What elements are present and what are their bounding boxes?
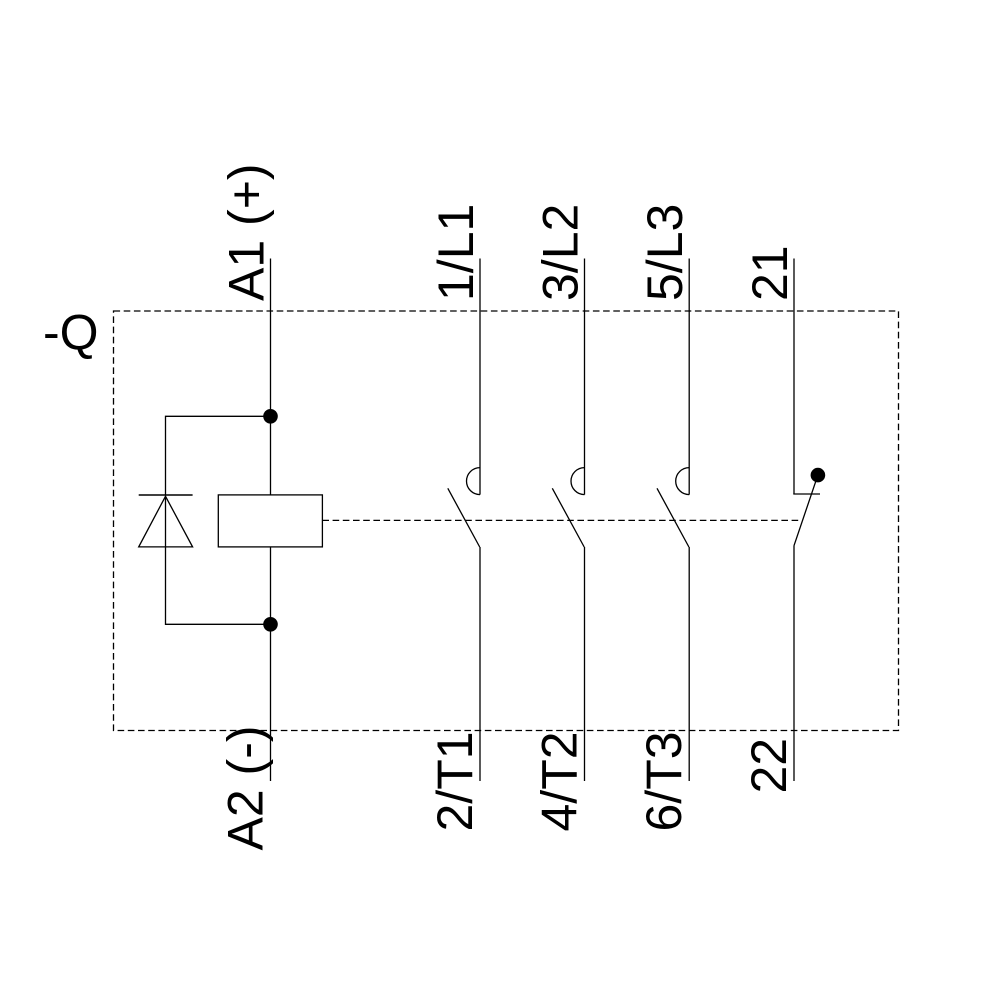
svg-text:6/T3: 6/T3	[636, 731, 692, 831]
svg-text:-Q: -Q	[43, 305, 99, 361]
svg-text:2/T1: 2/T1	[427, 731, 483, 831]
svg-text:21: 21	[742, 245, 798, 301]
svg-text:22: 22	[741, 738, 797, 794]
svg-text:3/L2: 3/L2	[533, 204, 589, 301]
svg-text:A2 (-): A2 (-)	[218, 726, 274, 851]
svg-text:5/L3: 5/L3	[637, 204, 693, 301]
svg-text:4/T2: 4/T2	[532, 731, 588, 831]
svg-text:A1 (+): A1 (+)	[219, 163, 275, 301]
svg-text:1/L1: 1/L1	[428, 204, 484, 301]
